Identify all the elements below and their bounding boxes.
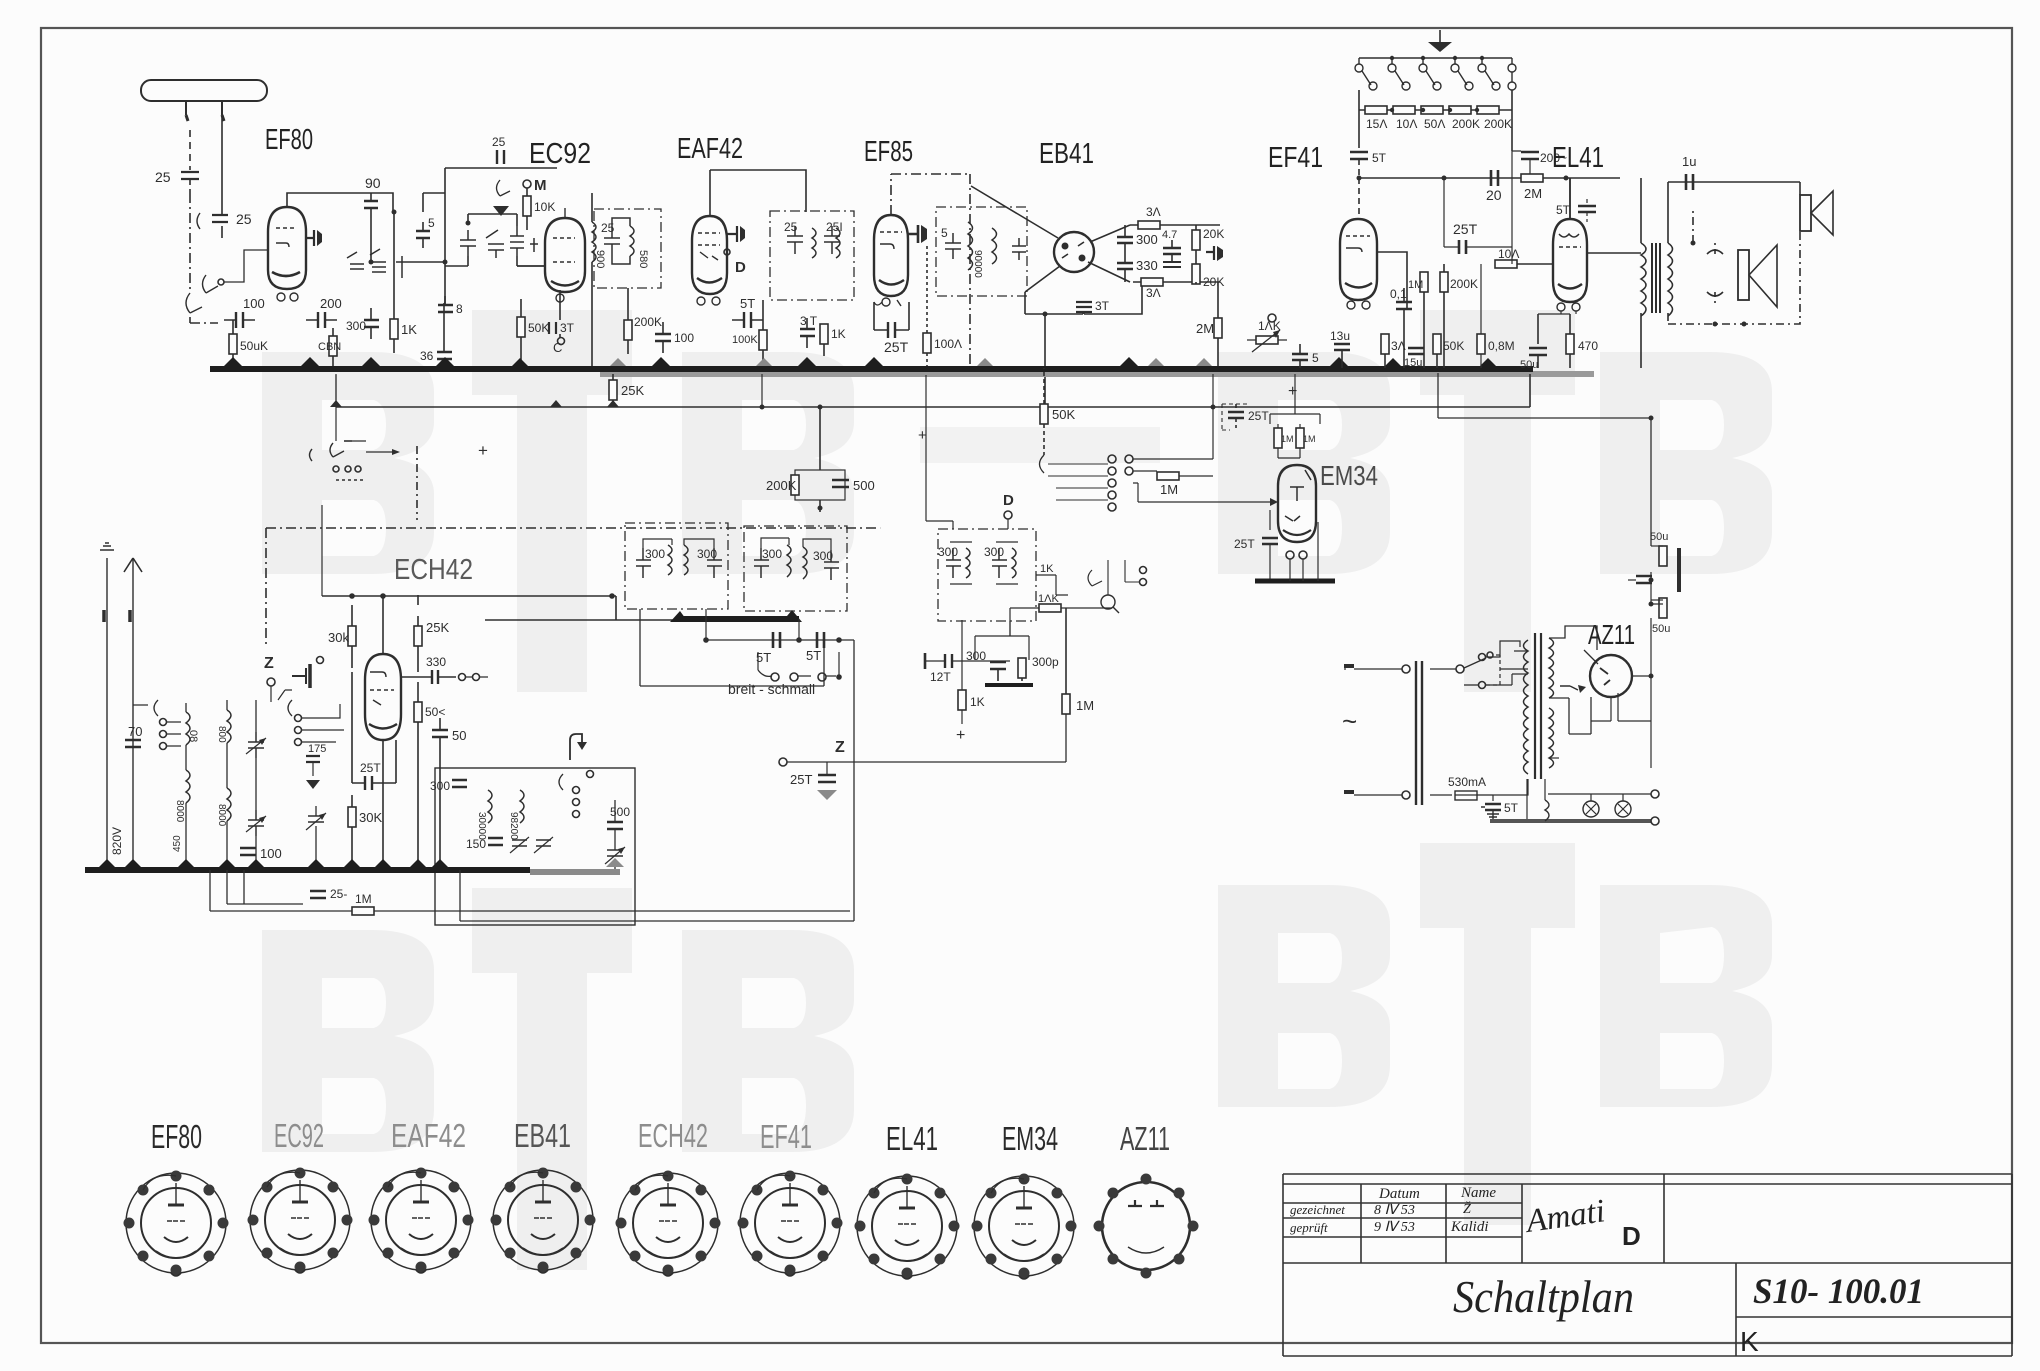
heavy bar (filter common) — [677, 616, 799, 622]
svg-text:CBN: CBN — [318, 341, 341, 353]
svg-text:5T: 5T — [1556, 203, 1571, 217]
svg-text:50K: 50K — [1052, 407, 1075, 422]
svg-text:300: 300 — [813, 549, 833, 563]
300 + 300p block — [1009, 621, 1011, 636]
long wire right to EF41 grid — [849, 595, 851, 911]
svg-text:10K: 10K — [534, 200, 555, 214]
svg-text:EB41: EB41 — [514, 1117, 571, 1154]
svg-text:EF41: EF41 — [760, 1118, 812, 1155]
caps 300/330 (ratio det) — [1117, 225, 1133, 255]
ECH42 block: wires down to bus — [383, 722, 418, 870]
plate lead EAF42 — [727, 226, 737, 242]
cap 25T (ECH42 cath) — [365, 776, 372, 790]
switch contacts right column — [295, 715, 302, 722]
svg-text:5: 5 — [941, 226, 948, 240]
svg-text:100: 100 — [243, 296, 265, 311]
resistor 25K — [414, 626, 422, 646]
svg-text:1K: 1K — [1040, 563, 1054, 575]
resistor CBN — [329, 336, 337, 356]
svg-text:500: 500 — [853, 478, 875, 493]
cap 3T + C terminal under EC92 — [549, 322, 556, 334]
cap 25T left of EM34 — [1262, 538, 1278, 544]
svg-text:Name: Name — [1460, 1185, 1496, 1201]
tone switch top rail — [1359, 57, 1512, 59]
wires from switch to ECH42 — [314, 704, 344, 742]
tube EL41 — [1569, 178, 1571, 219]
svg-text:330: 330 — [1136, 258, 1158, 273]
svg-text:200K: 200K — [1484, 117, 1512, 131]
svg-text:50<: 50< — [425, 705, 445, 719]
svg-text:8000: 8000 — [216, 804, 227, 827]
cap 5T + chassis (heater) — [1492, 795, 1494, 801]
cap 8 — [438, 296, 453, 312]
cap 100 — [655, 334, 671, 341]
heater resistor — [1545, 800, 1549, 821]
socket AZ11 — [1094, 1174, 1199, 1279]
svg-text:50uK: 50uK — [240, 339, 268, 353]
cap 50u (EL41 cathode) — [1529, 348, 1547, 355]
tube EB41 (duo-diode circle) — [1054, 232, 1094, 272]
svg-text:580: 580 — [637, 250, 649, 268]
svg-text:AZ11: AZ11 — [1588, 619, 1635, 650]
phono plug symbol — [292, 668, 306, 684]
cap 200 (tone right) — [1511, 110, 1513, 151]
cap 25T dashed (EM34) — [1228, 412, 1244, 418]
cap 50u (lower) — [1659, 598, 1667, 618]
resistor 3A bottom — [1141, 278, 1163, 286]
center tap chassis arrow — [1560, 686, 1578, 690]
lower ground bus (heavy) — [85, 867, 530, 873]
main ground bus (heavy) — [210, 366, 1533, 372]
svg-text:EM34: EM34 — [1002, 1120, 1058, 1157]
svg-text:1K: 1K — [970, 695, 985, 709]
resistor 3A top — [1138, 221, 1160, 229]
svg-text:K: K — [1740, 1326, 1759, 1357]
EB41 cross wires — [971, 186, 1130, 292]
bus gray overlay — [600, 371, 1594, 377]
res 50K (ECH42) — [414, 702, 422, 722]
label EB41 top right: tone bank ground — [1439, 30, 1441, 42]
svg-text:25-: 25- — [330, 887, 347, 901]
svg-text:50u: 50u — [1652, 623, 1670, 635]
svg-text:50: 50 — [452, 728, 466, 743]
resistor 2M — [1521, 174, 1543, 182]
svg-text:gezeichnet: gezeichnet — [1290, 1202, 1345, 1217]
svg-text:ECH42: ECH42 — [638, 1117, 708, 1154]
resistor 10A (EL41 grid) — [1495, 260, 1517, 268]
tube AZ11 — [1590, 655, 1632, 697]
tuning coils mid column — [227, 710, 231, 743]
svg-text:5T: 5T — [1504, 801, 1519, 815]
res 1M horizontal — [1157, 472, 1179, 480]
cap 50 — [432, 730, 448, 737]
voltage selector circles — [1479, 654, 1486, 661]
antenna down arrow terminal — [132, 558, 134, 870]
wire dash-dot down to band switch — [189, 193, 191, 293]
svg-text:+: + — [478, 441, 488, 460]
B+ feed line right — [1438, 373, 1651, 418]
mixer varicaps cluster (EC92 grid) — [460, 226, 538, 258]
cap 100 — [240, 848, 256, 855]
tube EAF42 — [692, 216, 727, 294]
svg-text:25T: 25T — [1248, 409, 1269, 423]
cap 25T (EF41 plate) — [1459, 240, 1466, 254]
tube EC92 — [545, 218, 585, 292]
heater bus — [1490, 819, 1651, 823]
svg-text:20: 20 — [1486, 187, 1502, 203]
ground terminal small — [106, 558, 108, 870]
pilot lamps — [1583, 801, 1599, 817]
svg-text:5T: 5T — [1372, 151, 1387, 165]
watermark BTB bottom-right — [1218, 843, 1772, 1225]
filter block bottom loop — [640, 609, 824, 686]
svg-text:EF85: EF85 — [864, 136, 913, 168]
svg-text:10Λ: 10Λ — [1396, 117, 1417, 131]
svg-text:EC92: EC92 — [274, 1117, 324, 1154]
svg-text:3Λ: 3Λ — [1146, 205, 1161, 219]
svg-text:EL41: EL41 — [886, 1120, 938, 1157]
svg-text:500: 500 — [610, 805, 630, 819]
res 1M (Z) — [1062, 694, 1070, 714]
screen caps cluster EF80 — [347, 249, 408, 278]
svg-text:50K: 50K — [1443, 339, 1464, 353]
svg-text:90000: 90000 — [972, 250, 983, 278]
svg-text:D: D — [1622, 1221, 1641, 1251]
junction dots — [369, 210, 471, 265]
terminal M — [523, 180, 531, 188]
svg-text:+: + — [1288, 383, 1297, 400]
cap 15u — [1408, 348, 1424, 354]
svg-text:EC92: EC92 — [529, 138, 591, 170]
resistor 50uK — [229, 334, 237, 354]
svg-text:08: 08 — [187, 730, 199, 742]
svg-text:175: 175 — [308, 743, 326, 755]
svg-text:2M: 2M — [1196, 321, 1214, 336]
power switch block — [310, 449, 313, 461]
tube ECH42 — [365, 654, 401, 740]
tube EF85 — [874, 215, 908, 296]
watermark BTB top-right — [1218, 310, 1772, 692]
svg-text:330: 330 — [426, 655, 446, 669]
breit-schmall switch block — [1036, 575, 1068, 595]
svg-text:12T: 12T — [930, 670, 951, 684]
wires EC92 area — [445, 214, 468, 266]
secondary HV — [1549, 638, 1554, 698]
cap 70 — [125, 740, 141, 747]
svg-text:300: 300 — [762, 547, 782, 561]
mains plug — [1344, 668, 1346, 670]
speaker large — [1738, 250, 1749, 300]
svg-text:300: 300 — [430, 779, 450, 793]
capacitor 25 (antenna) — [181, 172, 199, 193]
below-bus wires — [210, 870, 244, 911]
svg-text:20K: 20K — [1203, 227, 1224, 241]
variable cap (tuning) 1 — [246, 732, 266, 758]
svg-text:1M: 1M — [1160, 482, 1178, 497]
svg-text:5: 5 — [1312, 351, 1319, 365]
res 1K — [958, 690, 966, 710]
svg-text:200K: 200K — [1450, 277, 1478, 291]
tube EM34 — [1278, 465, 1316, 542]
svg-text:EAF42: EAF42 — [391, 1117, 466, 1154]
resistors 1M / 200K — [1420, 272, 1428, 292]
svg-text:8000: 8000 — [174, 800, 185, 823]
svg-text:8: 8 — [456, 302, 463, 316]
svg-text:15Λ: 15Λ — [1366, 117, 1387, 131]
heater winding bottom — [1549, 758, 1559, 779]
resistors 20K 20K — [1192, 230, 1200, 250]
svg-text:200K: 200K — [1452, 117, 1480, 131]
res 0.8M — [1477, 334, 1485, 354]
cap 25 below bus — [310, 891, 326, 898]
cap 5 — [416, 222, 430, 248]
resistor 1K (EAF42) — [820, 324, 828, 344]
socket EC92 — [248, 1168, 353, 1274]
svg-text:10Λ: 10Λ — [1498, 247, 1519, 261]
cap 200 (EF80 out) — [306, 312, 337, 328]
EM34 ground bar — [1255, 579, 1335, 584]
svg-text:C: C — [553, 340, 562, 355]
svg-text:Kalidi: Kalidi — [1450, 1219, 1489, 1235]
socket EB41 — [491, 1168, 596, 1274]
svg-text:25: 25 — [601, 221, 615, 235]
svg-text:EF80: EF80 — [151, 1118, 202, 1155]
res 30K — [348, 807, 356, 827]
oscillator block box — [435, 768, 635, 925]
socket EAF42 — [369, 1168, 474, 1274]
svg-text:3T: 3T — [560, 321, 575, 335]
IF filter block mid (455k) — [880, 510, 1220, 622]
svg-text:1M: 1M — [1076, 698, 1094, 713]
svg-text:1K: 1K — [401, 322, 417, 337]
caps 150 — [488, 838, 503, 845]
res 50K — [1433, 334, 1441, 354]
grid switch left of EF80 — [203, 275, 219, 293]
svg-text:Ž: Ž — [1463, 1200, 1471, 1217]
wires EF80-EC92 coupling — [423, 193, 445, 212]
svg-text:EL41: EL41 — [1552, 142, 1604, 174]
capacitor 90 — [364, 193, 378, 218]
socket EM34 — [972, 1174, 1077, 1280]
svg-text:3Λ: 3Λ — [1391, 339, 1406, 353]
B+ line to ECH42 (y595) — [322, 596, 677, 620]
socket EL41 — [855, 1174, 960, 1280]
antenna symbol — [141, 80, 267, 101]
wire EF80 anode loop to 90 cap — [287, 193, 393, 211]
cap 100 (EF80 grid) — [224, 312, 255, 328]
watermark BTB bottom-left — [262, 888, 854, 1270]
socket EF80 — [124, 1171, 229, 1277]
L-hook symbol — [570, 734, 582, 760]
cap 25T (Z) with ground — [818, 775, 836, 782]
svg-text:50u: 50u — [1650, 531, 1668, 543]
resistor 1K — [390, 319, 398, 339]
svg-text:25I: 25I — [826, 220, 843, 234]
volume pot 1MK — [1247, 339, 1287, 341]
cap 300 — [364, 308, 379, 339]
svg-text:EM34: EM34 — [1320, 460, 1378, 491]
svg-text:30000: 30000 — [476, 812, 487, 840]
AZ11 cathode down — [1591, 697, 1611, 721]
switch after plug — [1430, 668, 1456, 670]
ground stub (M) — [497, 180, 511, 196]
svg-text:5: 5 — [428, 216, 435, 230]
caps+coils inside out box — [787, 226, 840, 258]
phono plug Q — [1101, 595, 1115, 609]
res 3A (EF41 cathode) — [1381, 334, 1389, 354]
anode top loop EAF42 — [710, 170, 806, 216]
svg-text:Schaltplan: Schaltplan — [1453, 1271, 1634, 1322]
res 1M 1M pair — [1270, 374, 1320, 424]
svg-text:breit - schmall: breit - schmall — [728, 681, 815, 697]
svg-text:1K: 1K — [831, 327, 846, 341]
svg-text:AZ11: AZ11 — [1120, 1120, 1170, 1157]
svg-text:Z: Z — [835, 739, 845, 756]
switch circles in box — [573, 787, 580, 794]
IF filter dashed box A (breit) — [625, 523, 728, 609]
svg-text:0,8M: 0,8M — [1488, 339, 1515, 353]
selector to primary — [1490, 641, 1528, 669]
svg-text:70: 70 — [128, 724, 142, 739]
svg-text:1M: 1M — [1303, 434, 1316, 444]
plug marks — [104, 610, 130, 622]
svg-text:EF80: EF80 — [265, 124, 313, 156]
resistor 10K — [523, 196, 531, 216]
svg-text:3T: 3T — [1095, 299, 1110, 313]
svg-text:5T: 5T — [806, 648, 821, 663]
svg-text:25K: 25K — [621, 383, 644, 398]
socket EF41 — [738, 1171, 843, 1277]
svg-text:D: D — [735, 259, 746, 276]
cap 3T — [800, 329, 815, 336]
cap 175 — [306, 756, 320, 762]
svg-text:900: 900 — [594, 250, 606, 268]
svg-text:30K: 30K — [359, 810, 382, 825]
svg-text:25T: 25T — [360, 761, 381, 775]
res 470 — [1566, 334, 1574, 354]
svg-text:9 Ⅳ 53: 9 Ⅳ 53 — [1374, 1220, 1415, 1235]
cap 5 + coils inside — [945, 222, 1026, 270]
svg-text:25T: 25T — [1234, 537, 1255, 551]
input coil 08 — [186, 712, 190, 745]
fuse 530mA — [1430, 794, 1452, 796]
resistor 30k (ECH42 grid) — [348, 626, 356, 646]
svg-text:~: ~ — [1342, 706, 1357, 736]
dash-dot line y528 — [266, 527, 880, 529]
tone resistor chain — [1359, 62, 1512, 110]
wire antenna left dashed — [189, 130, 191, 170]
svg-text:EF41: EF41 — [1268, 142, 1323, 174]
svg-text:820V: 820V — [110, 827, 124, 855]
plate lead EF85 — [908, 225, 918, 243]
HV to AZ11 plates — [1549, 626, 1597, 650]
cap 1u — [1686, 174, 1693, 190]
cap 20 — [1491, 170, 1498, 186]
detector dashed box (EF85 out) — [936, 207, 1027, 296]
svg-text:50u: 50u — [1520, 359, 1538, 371]
top dash-dot loop EF85 — [891, 174, 970, 215]
svg-text:Z: Z — [264, 655, 274, 672]
field coil arcs — [1707, 250, 1723, 296]
svg-text:3 T: 3 T — [800, 314, 818, 328]
svg-text:100K: 100K — [732, 334, 758, 346]
tube EF41 — [1358, 178, 1360, 219]
svg-text:30k: 30k — [328, 630, 349, 645]
svg-text:5T: 5T — [740, 296, 755, 311]
jack field circles — [1040, 455, 1045, 473]
svg-text:1M: 1M — [1281, 434, 1294, 444]
cap 5T (tone left) — [1358, 110, 1360, 148]
trimmer + cap 25 node — [197, 211, 228, 238]
resistor 100A (EF85) — [923, 333, 931, 353]
coil 8000 — [186, 770, 190, 803]
IF filter dashed box B (schmall) — [744, 526, 847, 611]
dash-dot box with 2 LC tanks — [938, 529, 1036, 621]
band switch contacts left — [154, 700, 158, 716]
output transformer — [1570, 178, 1641, 253]
breit-schmall switches — [758, 670, 836, 676]
coupling line y178 — [1359, 177, 1620, 179]
svg-text:100Λ: 100Λ — [934, 337, 962, 351]
svg-text:300: 300 — [346, 319, 366, 333]
cap 36 — [437, 343, 452, 368]
svg-text:M: M — [534, 177, 547, 194]
svg-text:13u: 13u — [1330, 329, 1350, 343]
wire antenna right — [221, 101, 223, 211]
resistor 25K below bus — [609, 380, 617, 400]
svg-text:1M: 1M — [1408, 279, 1423, 291]
svg-text:50K: 50K — [528, 321, 549, 335]
cap 25T under EF85 — [874, 322, 909, 338]
svg-text:300: 300 — [1136, 232, 1158, 247]
res 1M below bus — [352, 907, 374, 915]
cap 25 (EC92 top) — [495, 150, 504, 168]
cap (D line) — [945, 654, 952, 668]
svg-text:Amati: Amati — [1522, 1193, 1607, 1240]
svg-text:50Λ: 50Λ — [1424, 117, 1445, 131]
AGC line below bus — [336, 406, 1530, 408]
svg-text:1u: 1u — [1682, 154, 1696, 169]
primary winding — [1524, 640, 1529, 774]
bus junction bumps — [224, 357, 1496, 366]
cap 330 (osc grid) — [432, 670, 438, 684]
svg-text:98200: 98200 — [508, 812, 519, 840]
svg-text:300: 300 — [697, 547, 717, 561]
svg-text:2M: 2M — [1524, 186, 1542, 201]
socket ECH42 — [616, 1171, 721, 1277]
svg-text:530mA: 530mA — [1448, 775, 1486, 789]
svg-text:8 Ⅳ 53: 8 Ⅳ 53 — [1374, 1203, 1415, 1218]
tone switches x6 — [1355, 58, 1516, 90]
heater terminals — [1651, 790, 1659, 798]
svg-text:25: 25 — [155, 169, 171, 185]
osc box to Z line — [459, 924, 461, 926]
svg-text:3Λ: 3Λ — [1146, 286, 1161, 300]
IF transformer dashed box (EAF42 in) — [594, 209, 661, 288]
power transformer core — [1535, 633, 1541, 779]
svg-text:300: 300 — [984, 545, 1004, 559]
svg-text:25T: 25T — [884, 339, 909, 355]
svg-text:25: 25 — [784, 220, 798, 234]
cap 10 — [1636, 576, 1652, 583]
svg-text:25K: 25K — [426, 620, 449, 635]
osc variable cap — [306, 813, 326, 830]
speaker small (tweeter) — [1799, 182, 1801, 195]
svg-text:ECH42: ECH42 — [394, 554, 473, 586]
IF transformer dashed box (EAF42 out) — [770, 211, 854, 300]
cap 25 + coil inside box — [604, 218, 634, 264]
speaker bottom wiring — [1668, 231, 1800, 324]
